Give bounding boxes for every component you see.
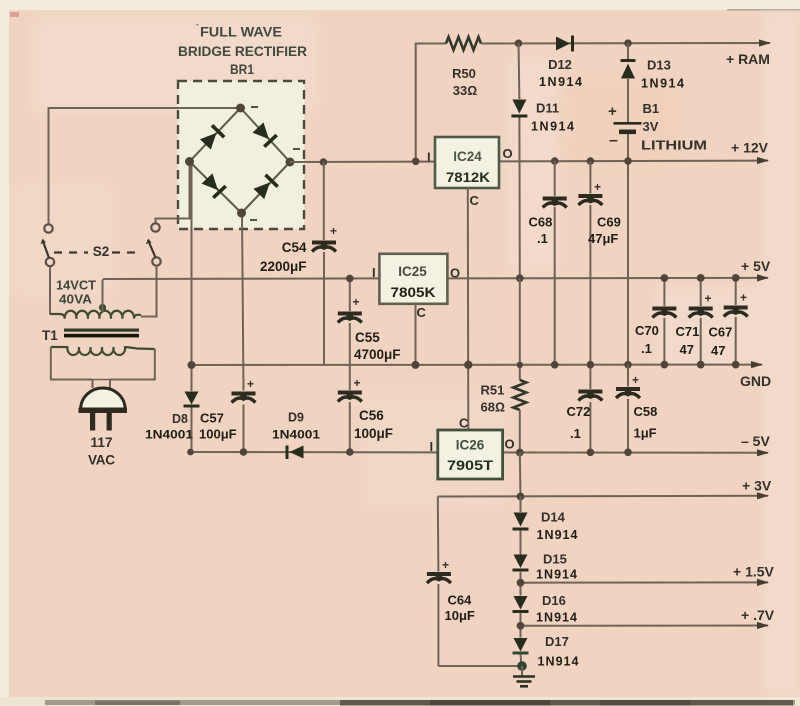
- wire: R51/D14 line -5V to +3V: [519, 453, 522, 497]
- capacitor C69 47uF: [578, 194, 602, 205]
- wire: center-tap line to IC25 input: [103, 278, 380, 280]
- arrow +12V: [757, 157, 769, 164]
- svg-text:C54: C54: [282, 240, 307, 255]
- diode D17 1N914: [513, 638, 529, 655]
- bridge diode lower-right: [253, 174, 279, 200]
- wire: IC24 C pin down to IC26 C pin through GND: [467, 188, 470, 430]
- svg-text:1N914: 1N914: [537, 528, 578, 542]
- svg-text:100μF: 100μF: [199, 427, 237, 442]
- node: negative bus / D8: [187, 449, 194, 456]
- diode D8 1N4001: [184, 392, 200, 408]
- node: +.7V tap: [517, 622, 525, 630]
- svg-text:D17: D17: [545, 634, 569, 649]
- S2 left blade: [43, 240, 50, 258]
- svg-text:+: +: [705, 292, 712, 306]
- svg-text:+ RAM: + RAM: [726, 51, 770, 67]
- svg-text:D12: D12: [548, 57, 572, 72]
- capacitor C71 47: [689, 307, 713, 318]
- wire: primary left lead down to plug loop: [51, 347, 93, 380]
- resistor R50 33ohm: [446, 37, 481, 50]
- node: GND bus / IC24-IC26 common: [464, 361, 472, 369]
- node: -5V rail / R51-D14: [516, 449, 524, 457]
- node: raw rail / R50 branch: [412, 158, 420, 166]
- svg-text:+ 3V: + 3V: [742, 478, 772, 494]
- svg-text:D16: D16: [542, 593, 566, 608]
- svg-text:BRIDGE RECTIFIER: BRIDGE RECTIFIER: [178, 44, 307, 59]
- svg-text:1μF: 1μF: [634, 426, 657, 441]
- node: GND / C67: [732, 361, 740, 369]
- svg-text:+ 1.5V: + 1.5V: [733, 564, 775, 580]
- arrow +RAM: [759, 39, 771, 46]
- svg-text:FULL WAVE: FULL WAVE: [200, 25, 282, 40]
- wire: R51 segment +5V to GND: [519, 278, 521, 380]
- svg-text:14VCT: 14VCT: [56, 278, 96, 293]
- node: GND bus / R51: [517, 362, 523, 368]
- svg-text:1N914: 1N914: [536, 611, 577, 625]
- diode D15 1N914: [513, 555, 529, 572]
- IC24 7812K: [427, 137, 513, 208]
- svg-text:+: +: [442, 558, 449, 572]
- wire: center tap up: [102, 280, 104, 312]
- diode D14 1N914: [513, 513, 529, 531]
- bridge diode lower-left: [201, 173, 227, 199]
- node: T1 center tap: [99, 304, 106, 311]
- svg-text:O: O: [503, 146, 513, 161]
- svg-text:7905T: 7905T: [447, 457, 494, 473]
- svg-text:1N4001: 1N4001: [145, 428, 193, 442]
- wire: negative raw bus / -5V rail: [191, 451, 769, 454]
- svg-text:C64: C64: [448, 593, 473, 608]
- svg-text:.1: .1: [641, 341, 652, 356]
- svg-text:+: +: [740, 291, 747, 305]
- node: -5V rail / C58: [624, 449, 632, 457]
- svg-text:+: +: [330, 224, 337, 238]
- node: S2 lower-right terminal: [152, 257, 160, 265]
- svg-text:1N4001: 1N4001: [272, 428, 320, 442]
- svg-text:GND: GND: [740, 373, 771, 389]
- node: bridge right vertex: [286, 158, 295, 167]
- node: +12V rail / C69: [587, 157, 595, 165]
- wire: C70 branch: [663, 278, 665, 306]
- node: GND bus left end / D8: [188, 361, 196, 369]
- node: S2 upper-left terminal: [44, 224, 52, 232]
- node: negative bus / C56: [346, 448, 354, 456]
- node: IC25 input / C55: [346, 275, 354, 283]
- node: bridge left vertex: [185, 157, 194, 166]
- svg-text:O: O: [450, 266, 460, 281]
- node: +5V / C71: [697, 274, 705, 282]
- bridge rectifier BR1 block: [178, 81, 304, 229]
- wire: C55/C56 vertical: [349, 278, 351, 311]
- arrow -5V: [757, 449, 769, 456]
- svg-text:BR1: BR1: [230, 62, 254, 77]
- T1 core: [64, 329, 139, 332]
- svg-text:1N914: 1N914: [536, 568, 577, 582]
- svg-text:C67: C67: [709, 325, 733, 340]
- svg-text:C72: C72: [567, 404, 591, 419]
- wire: [520, 613, 522, 638]
- svg-text:4700μF: 4700μF: [354, 347, 401, 362]
- wire: D14-D17 chain vertical: [520, 497, 522, 513]
- svg-text:3V: 3V: [643, 119, 659, 134]
- diode D12 1N914: [556, 36, 574, 52]
- svg-text:`: `: [196, 23, 199, 33]
- bridge diode upper-right: [252, 122, 278, 148]
- wire: +.7V rail: [521, 625, 769, 627]
- node: RAM rail / D11 junction: [515, 40, 523, 48]
- svg-text:IC25: IC25: [398, 264, 427, 279]
- svg-text:D11: D11: [536, 101, 559, 116]
- wire: D11 vertical (RAM rail to +12V rail and beyond): [518, 43, 521, 99]
- T1 secondary winding 14VCT: [50, 311, 141, 319]
- wire: bridge bottom vertex down to negative bus (through C57): [242, 213, 244, 391]
- wire: [521, 654, 522, 666]
- node: GND bus / C58-B1 line: [624, 361, 632, 369]
- svg-text:+ 12V: + 12V: [731, 140, 769, 156]
- svg-text:I: I: [430, 439, 434, 454]
- wire: R51 to -5V rail: [519, 410, 521, 453]
- svg-text:–: –: [609, 132, 618, 149]
- svg-text:B1: B1: [643, 101, 660, 116]
- node: +5V / C70: [661, 274, 669, 282]
- wire: bridge top vertex to left, down to switch S2 upper-left terminal: [49, 108, 241, 224]
- IC26 7905T: [430, 416, 515, 480]
- svg-text:2200μF: 2200μF: [260, 259, 307, 274]
- capacitor C56 100uF: [338, 391, 362, 402]
- wire: D8 branch below GND bus: [191, 365, 193, 391]
- svg-text:C: C: [459, 416, 469, 431]
- svg-text:+: +: [632, 373, 639, 387]
- wire: [520, 571, 522, 596]
- label FULL WAVE BRIDGE RECTIFIER BR1: [178, 23, 307, 77]
- node: +3V rail / D14 line: [517, 493, 525, 501]
- diode D16 1N914: [513, 596, 529, 613]
- svg-text:D13: D13: [647, 58, 671, 73]
- node: S2 upper-right terminal: [151, 223, 159, 231]
- node: GND bus / C68: [551, 361, 559, 369]
- svg-text:10μF: 10μF: [445, 608, 475, 623]
- wire: S2 lower-left to secondary left end: [49, 267, 51, 315]
- svg-text:VAC: VAC: [88, 453, 115, 468]
- wire: C68 branch: [554, 161, 556, 196]
- svg-text:+: +: [247, 377, 254, 391]
- svg-text:1N914: 1N914: [539, 75, 582, 89]
- node: +5V / C67: [732, 274, 740, 282]
- svg-text:33Ω: 33Ω: [453, 83, 477, 98]
- svg-text:+ 5V: + 5V: [741, 258, 771, 274]
- svg-text:S2: S2: [93, 244, 110, 259]
- wire: +3V rail: [438, 495, 768, 498]
- node: bridge bottom vertex: [237, 209, 246, 218]
- node: raw rail / C54 branch: [320, 158, 328, 166]
- capacitor C70 .1: [652, 307, 676, 318]
- svg-text:D9: D9: [288, 411, 304, 425]
- capacitor C64 10uF: [427, 572, 451, 583]
- node: GND bus / C69-C72: [587, 361, 595, 369]
- wire: plug stubs: [92, 380, 94, 389]
- svg-text:+: +: [608, 103, 617, 120]
- svg-text:100μF: 100μF: [354, 426, 393, 441]
- node: negative bus / C57: [240, 448, 248, 456]
- node: GND / C71: [697, 361, 705, 369]
- diode D9 1N4001 (on negative bus): [286, 446, 304, 460]
- wire: RAM rail R50 to arrow: [481, 42, 770, 45]
- svg-text:C: C: [470, 193, 480, 208]
- svg-text:R51: R51: [481, 383, 505, 398]
- svg-text:C70: C70: [635, 323, 659, 338]
- switch S2: [41, 223, 161, 266]
- svg-text:40VA: 40VA: [59, 292, 93, 307]
- svg-text:1N914: 1N914: [538, 655, 579, 669]
- node: GND / C70: [661, 361, 669, 369]
- svg-text:C56: C56: [359, 408, 384, 423]
- wire: primary right lead down to plug loop: [110, 349, 155, 380]
- IC25 7805K: [372, 254, 460, 320]
- AC plug 117 VAC: [79, 388, 128, 468]
- node: +5V rail / R51 line: [516, 274, 524, 282]
- svg-text:7805K: 7805K: [391, 284, 436, 300]
- svg-text:+: +: [353, 295, 360, 309]
- capacitor C67 47: [724, 306, 748, 317]
- svg-text:C58: C58: [634, 404, 658, 419]
- wire: C69/C72 vertical: [589, 161, 591, 194]
- diode D13 1N914: [621, 59, 636, 79]
- node: +12V rail / C68: [551, 157, 559, 165]
- svg-text:C: C: [417, 305, 427, 320]
- svg-text:C55: C55: [355, 330, 380, 345]
- svg-text:117: 117: [91, 435, 113, 450]
- svg-text:68Ω: 68Ω: [481, 400, 505, 415]
- svg-text:.1: .1: [537, 231, 548, 246]
- arrow +1.5V: [757, 579, 769, 586]
- svg-text:.1: .1: [570, 426, 581, 441]
- S2 dashed link: [54, 251, 88, 253]
- wire: C58 segment: [627, 365, 629, 387]
- capacitor C54 2200uF: [312, 241, 336, 252]
- capacitor C58 1uF: [616, 387, 640, 398]
- arrow +3V: [757, 492, 769, 499]
- battery B1 3V LITHIUM: [608, 101, 707, 153]
- wire: C71 branch: [700, 278, 702, 306]
- svg-text:C71: C71: [676, 324, 700, 339]
- node: RAM rail / D13 junction: [624, 39, 632, 47]
- svg-text:1N914: 1N914: [641, 77, 684, 91]
- capacitor C57 100uF: [232, 392, 256, 403]
- svg-text:D15: D15: [543, 552, 567, 567]
- svg-text:IC26: IC26: [456, 438, 485, 453]
- capacitor C72 .1: [578, 390, 602, 401]
- transformer T1: [42, 266, 157, 388]
- svg-text:– 5V: – 5V: [741, 433, 770, 449]
- svg-text:I: I: [372, 265, 376, 280]
- node: +12V rail / B1: [624, 157, 632, 165]
- svg-text:T1: T1: [42, 328, 58, 343]
- wire: D13/B1 vertical: [627, 43, 629, 60]
- bridge diode upper-left: [199, 124, 225, 150]
- wire: [520, 531, 522, 555]
- node: -5V rail / C72: [587, 449, 595, 457]
- node: GND bus / IC25 common: [412, 361, 420, 369]
- ground symbol: [513, 666, 535, 686]
- S2 right blade: [148, 240, 156, 258]
- wire: C67 branch: [735, 278, 737, 305]
- svg-text:7812K: 7812K: [446, 169, 490, 185]
- svg-text:+ .7V: + .7V: [741, 607, 775, 623]
- wire: R50 branch up from raw rail: [416, 44, 446, 162]
- svg-text:I: I: [427, 150, 431, 165]
- wire: C64 branch corner from +3V rail: [437, 497, 440, 572]
- wire: +1.5V rail: [521, 581, 769, 583]
- node: S2 lower-left terminal: [46, 258, 54, 266]
- svg-text:R50: R50: [452, 66, 476, 81]
- svg-text:1N914: 1N914: [531, 120, 574, 134]
- svg-text:47: 47: [680, 342, 694, 357]
- svg-text:47μF: 47μF: [588, 231, 618, 246]
- bridge diamond wires: [190, 108, 291, 213]
- svg-text:IC24: IC24: [453, 149, 482, 164]
- svg-text:LITHIUM: LITHIUM: [641, 138, 707, 153]
- wire: S2 lower-right to secondary right end: [141, 266, 157, 317]
- wire: bridge left vertex down to GND bus (D8 branch): [191, 162, 193, 366]
- resistor R51 68ohm: [513, 380, 526, 410]
- svg-text:D14: D14: [541, 510, 566, 525]
- svg-text:C68: C68: [529, 215, 553, 230]
- svg-text:+: +: [354, 376, 361, 390]
- capacitor C68 .1: [543, 197, 567, 208]
- diode D11 1N914: [511, 100, 527, 118]
- arrow +.7V: [757, 622, 769, 629]
- node: ground node: [517, 661, 527, 671]
- arrow +5V: [757, 274, 769, 281]
- capacitor C55 4700uF: [338, 312, 362, 323]
- wire: C54 branch: [323, 162, 325, 240]
- wire: IC25 C pin to GND: [415, 304, 417, 365]
- svg-text:D8: D8: [172, 412, 188, 426]
- wire: GND bus: [192, 364, 763, 366]
- wire: bridge left vertex down, left to switch S2 upper-right terminal: [156, 162, 190, 224]
- wire: raw DC rail bridge right vertex to +12V arrow (IC24 row): [290, 161, 768, 162]
- node: bridge top vertex: [236, 104, 245, 113]
- svg-text:O: O: [505, 437, 515, 452]
- svg-text:+: +: [594, 180, 601, 194]
- arrow GND: [751, 361, 763, 368]
- svg-text:C69: C69: [597, 215, 621, 230]
- svg-text:47: 47: [711, 343, 725, 358]
- node: +1.5V tap: [517, 579, 525, 587]
- T1 primary winding: [51, 347, 155, 355]
- bridge polarity marks: [250, 106, 300, 221]
- wire: +5V rail IC25 output to arrow: [448, 277, 769, 280]
- svg-text:C57: C57: [200, 411, 224, 426]
